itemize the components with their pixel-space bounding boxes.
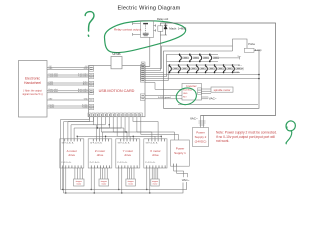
wire card to enclosure loop [145,72,164,74]
row2 rails [168,65,240,73]
svg-text:Y axis select: Y axis select [78,74,88,77]
svg-text:5V P- D- E+ E-: 5V P- D- E+ E- [118,142,130,144]
card bottom terminal blocks [88,113,142,117]
junction dots fan extra [97,124,127,133]
svg-text:(24VDC): (24VDC) [195,139,207,143]
stepper motor M3 [126,179,135,186]
switch body row1-B3 [203,57,209,59]
svg-text:Power: Power [196,131,205,135]
wires card to drivers [68,117,179,140]
switch body row2-B5 [209,68,215,70]
USB connector J1 [111,57,122,69]
wires driver D1 to supply bus [63,168,66,193]
svg-text:Handwheel: Handwheel [24,81,41,85]
svg-text:Note: Power supply 2 must be c: Note: Power supply 2 must be connected. [216,130,277,134]
wire enclosure loop [164,50,260,108]
svg-text:drive: drive [69,153,76,157]
junction dots fan [77,136,162,137]
switch body row1-Bend [213,57,219,59]
wire coil bottom [160,31,167,35]
svg-text:+COM: +COM [233,72,240,74]
svg-text:Probe: Probe [248,43,255,46]
limit switch row2-S3 [187,64,190,73]
flyback diode D1 [164,23,167,35]
wire card to switch row 2 [145,65,168,81]
wire common line 2 [145,78,259,80]
wires driver D3 to supply bus [119,168,122,193]
wires card to inverter [145,83,182,99]
wire e-stop to loop [254,50,259,52]
switch body row2-B2 [182,68,188,70]
wires driver D1 to motor [75,168,83,179]
switch body row2-Bend [236,68,242,70]
wires inverter AC input [202,97,209,99]
wires driver D4 to motor [152,168,158,179]
svg-text:spindle motor: spindle motor [214,88,231,92]
svg-text:USB MOTION CARD: USB MOTION CARD [99,89,135,93]
wires driver D2 to supply bus [91,168,94,193]
svg-text:drive: drive [152,153,159,157]
stepper motor M1 [74,179,85,186]
annotation question mark (green) [85,12,94,37]
wires PS1 to VAC [174,166,188,177]
card left terminal blocks [89,66,94,110]
wire card to bus 2 [64,117,94,193]
stepper driver D2 (Z motor drive) [88,139,112,168]
limit switch row1-S4 [209,54,212,63]
wire card to probe line [145,46,233,69]
wire card to relay coil [145,35,160,71]
svg-text:A plus: A plus [49,82,54,85]
svg-text:VAC~: VAC~ [182,178,190,182]
switch body row2-B4 [200,68,206,70]
svg-text:5V P- D- E+ E-: 5V P- D- E+ E- [90,142,102,144]
svg-text:signal must be 5 v): signal must be 5 v) [22,93,42,96]
stepper driver D4 (X motor drive) [144,139,167,168]
switch body row2-B6 [218,68,224,70]
inverter right terminals [198,88,202,95]
wires driver D3 to motor [127,168,134,179]
wires driver D2 to motor [100,168,107,179]
limit switch row2-S4 [196,64,199,73]
switch body row2-B1 [173,68,179,70]
switch body row1-B2 [193,57,199,59]
junction node B [258,78,260,80]
stepper motor M2 [99,179,109,186]
wire card to relay contact block [145,37,150,66]
svg-text:B axis select: B axis select [49,90,59,93]
handwheel box [19,61,48,118]
wires AC to power supply 2 [199,116,206,128]
svg-text:Electric Wiring Diagram: Electric Wiring Diagram [117,6,180,12]
svg-text:5V P- D- E+ E-: 5V P- D- E+ E- [62,142,74,144]
power supply 2 PS2 [193,128,209,147]
svg-text:GND: GND [183,93,188,95]
annotation curl (green) [286,121,295,144]
spindle motor M5 [211,87,233,92]
wire card to bus 1 [61,117,90,190]
svg-text:P+ P- D+ D-: P+ P- D+ D- [145,162,155,164]
wires handwheel to card [47,68,89,109]
svg-text:motor: motor [128,183,133,186]
svg-text:A plus: A plus [83,82,88,85]
limit switch row2-S2 [178,64,181,73]
svg-text:VAC~: VAC~ [209,97,217,101]
svg-text:motor: motor [101,183,106,186]
USB motion card U1 [89,66,146,117]
wire row2 end [241,67,243,70]
wire inner bottom [178,104,258,106]
wire coil top [159,23,161,26]
wires driver D4 to supply bus [147,168,150,193]
switch body row2-B3 [191,68,197,70]
wire supply bus 1 [61,182,187,190]
e-stop switch S1 [244,48,254,52]
annotation loop around relay contact output (green) [104,21,185,53]
limit switch row2-S6 [214,64,217,73]
svg-text:USB: USB [112,51,121,56]
inverter VFD1 [182,84,202,101]
svg-text:motor: motor [153,183,158,186]
wire +COM line [145,74,259,76]
svg-text:P+ P- D+ D-: P+ P- D+ D- [117,162,127,164]
relay coil K1 coil [158,26,163,32]
svg-text:5V P- D- E+ E-: 5V P- D- E+ E- [146,142,158,144]
svg-text:Y pulse: Y pulse [49,106,55,108]
svg-text:if no 0-10v port,output port,i: if no 0-10v port,output port,input port … [216,135,275,139]
card right terminal blocks [140,65,145,101]
svg-text:X++: X++ [238,56,243,58]
power supply PS1 [171,140,190,166]
limit switch row1-S3 [199,54,202,63]
limit switch row1-S2 [189,54,192,63]
limit switch row2-S7 [223,64,226,73]
svg-text:B axis select: B axis select [78,90,88,93]
svg-text:P+ P- D+ D-: P+ P- D+ D- [61,162,71,164]
svg-text:0-10V speed: 0-10V speed [158,97,171,99]
svg-text:drive: drive [125,153,132,157]
wire supply bus 2 [64,183,184,194]
stepper motor M4 [151,179,159,186]
wires inverter to spindle motor [202,89,212,93]
wire card to switch row 1 [145,54,167,76]
junction node A [258,74,260,76]
labels handwheel wires [49,66,89,109]
svg-text:not work.: not work. [216,139,229,143]
svg-text:Supply 1: Supply 1 [174,151,186,155]
limit switch row2-S1 [169,64,172,73]
svg-text:Relay coil: Relay coil [157,17,169,21]
annotation loop inverter pins (green) [174,86,198,107]
svg-text:Relay contact output: Relay contact output [114,28,142,32]
svg-text:Y axis select: Y axis select [49,74,59,77]
wire row1 end [219,56,240,59]
limit switch row2-S5 [205,64,208,73]
wire probe step [233,39,248,51]
svg-text:VAC~: VAC~ [190,116,198,120]
svg-text:Inverter: Inverter [186,84,196,88]
stepper driver D1 (A motor drive) [60,139,84,168]
card top-right terminal block [141,62,145,66]
svg-text:Mach: 1=M03: Mach: 1=M03 [169,27,186,31]
note text (red) [216,130,277,143]
inverter left pin labels [183,88,193,98]
limit switch row1-S1 [179,54,182,63]
svg-text:Power: Power [176,147,185,151]
svg-text:drive: drive [97,153,104,157]
svg-text:Y pulse: Y pulse [82,106,88,108]
svg-text:Supply 2: Supply 2 [195,135,207,139]
svg-text:motor: motor [76,183,81,186]
wire contact stubs right [154,24,156,31]
svg-text:X++: X++ [238,65,243,67]
relay contact block K1 [141,21,154,38]
PS1 bottom terminals [174,164,177,167]
svg-text:RLY: RLY [183,96,187,98]
svg-text:P+ P- D+ D-: P+ P- D+ D- [90,162,100,164]
switch body row1-B1 [183,57,189,59]
stepper driver D3 (Y motor drive) [116,139,140,168]
wire AC power loop [160,23,275,116]
wire contact stubs left [133,22,141,36]
row1 rails [167,54,219,61]
switch body row2-B7 [227,68,233,70]
limit switch row2-S8 [232,64,235,73]
